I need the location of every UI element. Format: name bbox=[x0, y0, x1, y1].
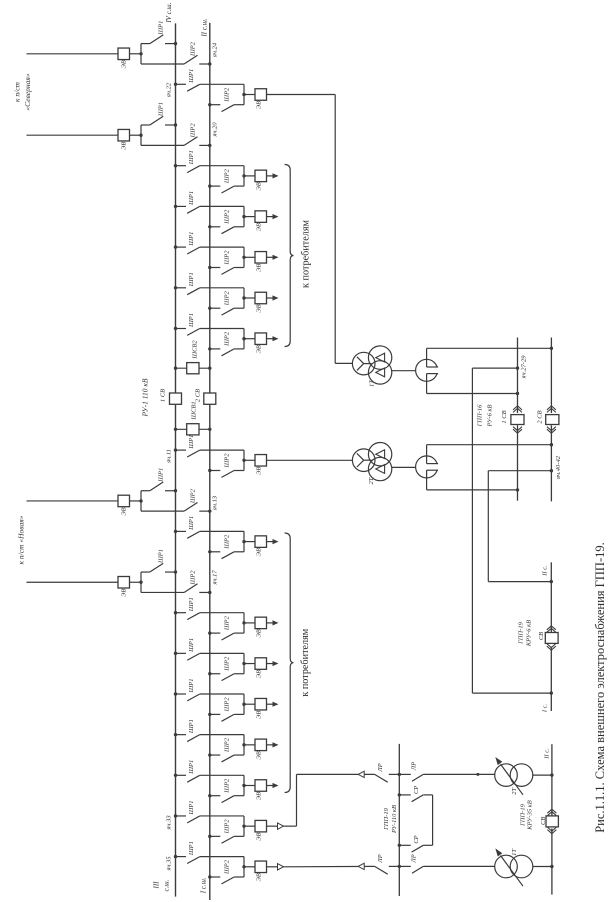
svg-text:ЭВ: ЭВ bbox=[256, 873, 263, 881]
svg-text:1Т: 1Т bbox=[511, 849, 518, 856]
svg-text:ШСВ1: ШСВ1 bbox=[191, 401, 198, 420]
svg-text:ШР1: ШР1 bbox=[188, 69, 195, 84]
svg-text:ШР1: ШР1 bbox=[188, 150, 195, 165]
svg-text:ШР2: ШР2 bbox=[224, 819, 231, 835]
svg-text:I с.: I с. bbox=[542, 703, 549, 713]
svg-text:ШР2: ШР2 bbox=[224, 331, 231, 347]
svg-text:ШР1: ШР1 bbox=[188, 272, 195, 287]
svg-text:ШР1: ШР1 bbox=[158, 21, 165, 36]
svg-text:2Т: 2Т bbox=[368, 477, 375, 484]
svg-text:II с.ш.: II с.ш. bbox=[201, 18, 209, 38]
svg-text:ЭВ: ЭВ bbox=[256, 467, 263, 475]
svg-text:ШР2: ШР2 bbox=[224, 534, 231, 550]
svg-text:ЭВ: ЭВ bbox=[256, 223, 263, 231]
svg-text:ШР2: ШР2 bbox=[224, 87, 231, 103]
svg-text:ШР1: ШР1 bbox=[188, 719, 195, 734]
svg-text:II с.: II с. bbox=[542, 565, 549, 577]
svg-text:с.ш.: с.ш. bbox=[162, 879, 170, 891]
svg-text:ЭВ: ЭВ bbox=[256, 304, 263, 312]
svg-text:ЭВ: ЭВ bbox=[256, 792, 263, 800]
svg-text:ЭВ: ЭВ bbox=[121, 60, 128, 68]
svg-text:ШР2: ШР2 bbox=[224, 453, 231, 469]
svg-text:СВ: СВ bbox=[540, 817, 547, 825]
svg-text:ЛР: ЛР bbox=[411, 854, 418, 863]
svg-text:СР: СР bbox=[413, 786, 420, 794]
svg-text:ЛР: ЛР bbox=[411, 762, 418, 771]
svg-text:ШР1: ШР1 bbox=[188, 638, 195, 653]
svg-text:ШР1: ШР1 bbox=[188, 232, 195, 247]
svg-text:КРУ-6 кВ: КРУ-6 кВ bbox=[526, 620, 533, 647]
svg-text:ЭВ: ЭВ bbox=[256, 101, 263, 109]
svg-text:«Северная»: «Северная» bbox=[23, 73, 32, 110]
svg-text:ШР1: ШР1 bbox=[188, 679, 195, 694]
svg-text:ЭВ: ЭВ bbox=[256, 833, 263, 841]
svg-text:ШР2: ШР2 bbox=[190, 488, 197, 504]
svg-text:ЛР: ЛР bbox=[377, 763, 384, 772]
svg-text:ШР2: ШР2 bbox=[224, 615, 231, 631]
svg-text:ЭВ: ЭВ bbox=[121, 507, 128, 515]
svg-text:КРУ-35 кВ: КРУ-35 кВ bbox=[527, 800, 534, 831]
svg-text:РУ-6 кВ: РУ-6 кВ bbox=[487, 405, 494, 428]
svg-text:1Т: 1Т bbox=[369, 380, 376, 387]
svg-text:РУ-110 кВ: РУ-110 кВ bbox=[391, 805, 398, 834]
svg-text:1 СВ: 1 СВ bbox=[160, 389, 167, 402]
svg-text:ШР1: ШР1 bbox=[188, 516, 195, 531]
svg-text:яч.33: яч.33 bbox=[166, 815, 173, 831]
svg-text:I с.ш.: I с.ш. bbox=[200, 877, 208, 894]
svg-text:ШР1: ШР1 bbox=[188, 191, 195, 206]
svg-text:ГПП-19: ГПП-19 bbox=[518, 621, 525, 645]
svg-text:Рис.1.1.1. Схема внешнего элек: Рис.1.1.1. Схема внешнего электроснабжен… bbox=[593, 542, 607, 833]
svg-text:ЭВ: ЭВ bbox=[121, 589, 128, 597]
svg-text:ШР2: ШР2 bbox=[190, 41, 197, 57]
svg-text:яч.22: яч.22 bbox=[166, 82, 173, 98]
svg-text:1 СВ: 1 СВ bbox=[501, 410, 508, 423]
svg-text:ШР2: ШР2 bbox=[224, 778, 231, 794]
svg-text:яч.20: яч.20 bbox=[212, 122, 219, 138]
svg-text:ЭВ: ЭВ bbox=[256, 629, 263, 637]
svg-text:ЭВ: ЭВ bbox=[256, 751, 263, 759]
svg-text:IV с.ш.: IV с.ш. bbox=[165, 2, 173, 23]
svg-text:РУ-1 110 кВ: РУ-1 110 кВ bbox=[141, 378, 150, 417]
svg-text:яч.27-29: яч.27-29 bbox=[521, 355, 528, 380]
svg-text:ШР1: ШР1 bbox=[158, 468, 165, 483]
svg-text:ШР2: ШР2 bbox=[190, 570, 197, 586]
svg-text:к п/ст: к п/ст bbox=[13, 81, 22, 102]
svg-text:яч.35: яч.35 bbox=[166, 856, 173, 872]
svg-text:ЭВ: ЭВ bbox=[256, 670, 263, 678]
svg-text:ШСВ2: ШСВ2 bbox=[192, 340, 199, 360]
svg-text:к п/ст «Новая»: к п/ст «Новая» bbox=[17, 515, 26, 564]
svg-text:ГПП-19: ГПП-19 bbox=[520, 803, 527, 827]
svg-text:2 СВ: 2 СВ bbox=[537, 410, 544, 423]
svg-text:яч.40-42: яч.40-42 bbox=[555, 455, 562, 480]
svg-text:яч.13: яч.13 bbox=[212, 495, 219, 511]
svg-text:ШР1: ШР1 bbox=[188, 841, 195, 856]
svg-text:III: III bbox=[153, 881, 161, 890]
svg-text:ШР2: ШР2 bbox=[224, 656, 231, 672]
svg-text:ШР1: ШР1 bbox=[158, 102, 165, 117]
svg-text:ШР2: ШР2 bbox=[224, 290, 231, 306]
svg-text:ЭВ: ЭВ bbox=[256, 264, 263, 272]
svg-text:2Т: 2Т bbox=[511, 787, 518, 794]
svg-text:ШР1: ШР1 bbox=[188, 760, 195, 775]
svg-text:ШР2: ШР2 bbox=[190, 123, 197, 139]
svg-text:ГПП-16: ГПП-16 bbox=[477, 404, 484, 428]
svg-text:ШР1: ШР1 bbox=[158, 549, 165, 564]
svg-text:ЛР: ЛР bbox=[377, 854, 384, 863]
svg-text:яч.24: яч.24 bbox=[212, 42, 219, 58]
svg-text:СВ: СВ bbox=[538, 632, 545, 640]
svg-text:ШР1: ШР1 bbox=[188, 800, 195, 815]
svg-text:ЭВ: ЭВ bbox=[256, 711, 263, 719]
svg-text:ЭВ: ЭВ bbox=[256, 548, 263, 556]
svg-text:ШР1: ШР1 bbox=[188, 597, 195, 612]
svg-text:ШР2: ШР2 bbox=[224, 697, 231, 713]
svg-text:ШР2: ШР2 bbox=[224, 737, 231, 753]
svg-text:ШР1: ШР1 bbox=[188, 313, 195, 328]
svg-text:СР: СР bbox=[413, 835, 420, 843]
svg-text:II с.: II с. bbox=[544, 748, 551, 760]
svg-text:к потребителям: к потребителям bbox=[300, 628, 311, 696]
svg-text:ЭВ: ЭВ bbox=[121, 142, 128, 150]
svg-text:ШР2: ШР2 bbox=[224, 859, 231, 875]
svg-text:ШР1: ШР1 bbox=[188, 435, 195, 450]
svg-text:ЭВ: ЭВ bbox=[256, 345, 263, 353]
svg-text:ШР2: ШР2 bbox=[224, 250, 231, 266]
svg-text:ЭВ: ЭВ bbox=[256, 182, 263, 190]
svg-text:к потребителям: к потребителям bbox=[301, 219, 312, 287]
svg-text:яч.11: яч.11 bbox=[166, 449, 173, 464]
svg-text:ШР2: ШР2 bbox=[224, 168, 231, 184]
svg-text:ШР2: ШР2 bbox=[224, 209, 231, 225]
svg-text:яч.17: яч.17 bbox=[212, 570, 219, 586]
svg-text:2 СВ: 2 СВ bbox=[195, 389, 202, 402]
svg-text:ГПП-19: ГПП-19 bbox=[383, 807, 390, 831]
